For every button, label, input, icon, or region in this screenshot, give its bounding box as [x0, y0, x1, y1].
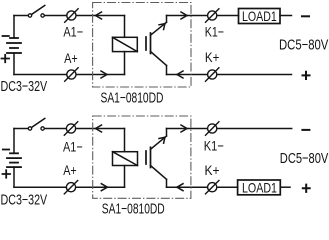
svg-text:DC3−32V: DC3−32V — [1, 78, 48, 95]
svg-text:LOAD1: LOAD1 — [242, 179, 277, 195]
svg-text:DC5−80V: DC5−80V — [280, 150, 329, 167]
svg-text:DC5−80V: DC5−80V — [279, 37, 328, 54]
svg-text:A+: A+ — [63, 162, 76, 178]
svg-text:A+: A+ — [64, 50, 78, 66]
svg-text:K+: K+ — [205, 49, 219, 65]
svg-text:K1−: K1− — [205, 23, 224, 39]
svg-text:A1−: A1− — [63, 139, 83, 155]
svg-text:A1−: A1− — [63, 23, 83, 39]
svg-text:SA1−0810DD: SA1−0810DD — [102, 201, 165, 218]
svg-text:K1−: K1− — [204, 138, 224, 154]
svg-text:DC3−32V: DC3−32V — [1, 191, 48, 208]
svg-text:LOAD1: LOAD1 — [242, 8, 277, 24]
svg-text:K+: K+ — [205, 162, 220, 178]
svg-text:SA1−0810DD: SA1−0810DD — [101, 90, 164, 107]
